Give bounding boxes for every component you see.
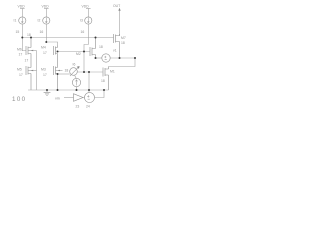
bulk rail wire bbox=[36, 51, 38, 91]
current source I2 bbox=[43, 17, 50, 24]
vdd V1 rail symbol bbox=[20, 8, 25, 17]
junction dots bbox=[21, 37, 136, 92]
svg-text:M1: M1 bbox=[110, 70, 115, 74]
out branch down to M1 drain bbox=[109, 58, 136, 67]
svg-text:I1: I1 bbox=[14, 18, 17, 22]
wire I2 down to M4 drain bbox=[46, 24, 57, 45]
svg-text:17: 17 bbox=[19, 73, 23, 77]
port triangle bbox=[74, 94, 84, 102]
svg-text:VDD: VDD bbox=[18, 4, 26, 8]
svg-text:18: 18 bbox=[121, 41, 125, 45]
svg-text:18: 18 bbox=[101, 79, 105, 83]
svg-text:VDD: VDD bbox=[82, 4, 90, 8]
wire v1 to out rail bbox=[110, 57, 135, 59]
wire I3 down to source line bbox=[84, 24, 88, 51]
svg-text:I6: I6 bbox=[73, 63, 76, 67]
source v2 bbox=[83, 93, 95, 103]
current source I3 bbox=[85, 17, 92, 24]
svg-text:24: 24 bbox=[86, 105, 90, 109]
label 100 bbox=[12, 96, 27, 103]
svg-text:18: 18 bbox=[65, 69, 69, 73]
mirror gate wire M4 to M2 bbox=[58, 51, 91, 53]
vdd V2 rail symbol bbox=[44, 8, 49, 17]
wire v2 to rail bbox=[95, 90, 105, 98]
svg-text:M4: M4 bbox=[41, 46, 46, 50]
svg-text:17: 17 bbox=[19, 53, 23, 57]
source v1 bbox=[102, 54, 110, 62]
svg-text:OUT: OUT bbox=[113, 4, 120, 8]
svg-text:17: 17 bbox=[25, 59, 29, 63]
gate feed wire M6 bbox=[22, 38, 26, 51]
transistor M4 bbox=[54, 46, 58, 68]
transistor M5 bbox=[26, 66, 37, 90]
ground symbol bbox=[44, 90, 51, 96]
transistor M6 bbox=[26, 38, 37, 67]
svg-text:15: 15 bbox=[16, 30, 20, 34]
svg-text:18: 18 bbox=[27, 33, 31, 37]
svg-text:M5: M5 bbox=[17, 68, 22, 72]
svg-text:18: 18 bbox=[99, 45, 103, 49]
svg-text:I2: I2 bbox=[38, 18, 41, 22]
wire M3 node to I6 bbox=[58, 73, 70, 75]
bus wire net15 bbox=[22, 37, 113, 39]
svg-text:100: 100 bbox=[12, 96, 27, 103]
svg-text:M6: M6 bbox=[17, 48, 22, 52]
svg-text:M2: M2 bbox=[76, 52, 81, 56]
ground rail bbox=[28, 89, 109, 91]
svg-text:vin: vin bbox=[55, 96, 60, 100]
svg-text:v1: v1 bbox=[113, 49, 117, 53]
gate wire M1 bbox=[77, 71, 103, 73]
current source I6 bbox=[70, 66, 80, 76]
vdd V3 rail symbol bbox=[86, 8, 91, 17]
labels bbox=[14, 4, 126, 109]
svg-text:17: 17 bbox=[43, 51, 47, 55]
output port arrow bbox=[118, 8, 120, 36]
input wire vin bbox=[64, 97, 74, 99]
transistor M7 bbox=[114, 34, 120, 58]
svg-text:I3: I3 bbox=[80, 18, 83, 22]
svg-text:16: 16 bbox=[81, 30, 85, 34]
transistor M3 bbox=[54, 66, 63, 90]
transistor M2 bbox=[90, 38, 96, 59]
current source I1 bbox=[19, 17, 26, 24]
transistor M1 bbox=[103, 67, 109, 91]
wire I1 to bus bbox=[21, 24, 23, 37]
svg-text:16: 16 bbox=[40, 30, 44, 34]
svg-text:VDD: VDD bbox=[42, 4, 50, 8]
svg-text:M3: M3 bbox=[41, 68, 46, 72]
current source I7 bbox=[72, 75, 80, 90]
bias tie wire bbox=[83, 52, 85, 73]
svg-text:17: 17 bbox=[43, 73, 47, 77]
node wire to v1 bbox=[96, 57, 102, 59]
wire gate branch down to v2 bbox=[88, 72, 90, 93]
svg-text:23: 23 bbox=[76, 105, 80, 109]
svg-text:M7: M7 bbox=[121, 36, 126, 40]
